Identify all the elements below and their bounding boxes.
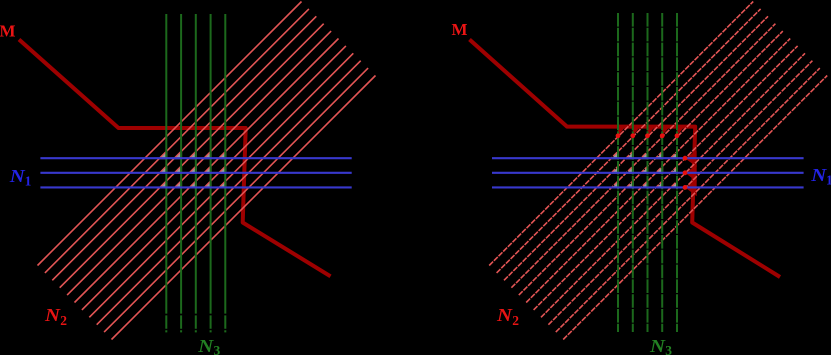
lamination N2 left line 5 xyxy=(67,31,331,295)
gray triangle left g3 b2 xyxy=(189,166,197,174)
lamination N3 right line 2 xyxy=(632,13,634,332)
finger spike right 2 xyxy=(633,125,642,136)
lamination N2 left line 1 xyxy=(38,2,302,266)
lamination N3 left line 3 xyxy=(195,14,197,314)
svg-text:N: N xyxy=(197,336,214,355)
lamination N1 right line 2 xyxy=(492,172,804,174)
intersection dot right 8 xyxy=(683,185,688,190)
lamination N3 left line 1 xyxy=(165,14,167,314)
gray triangle left g2 b1 xyxy=(174,151,182,159)
svg-text:3: 3 xyxy=(214,343,221,355)
lamination N2 right line 11 xyxy=(563,76,827,340)
lamination N2 right line 7 xyxy=(534,46,798,310)
curve M (right) xyxy=(470,40,781,278)
lamination N2 left line 10 xyxy=(104,68,368,332)
gray triangle left g1 b2 xyxy=(160,166,168,174)
gray triangle right g2 b3 xyxy=(626,181,634,188)
gray triangle left g4 b2 xyxy=(204,166,212,174)
lamination N2 left line 7 xyxy=(82,46,346,310)
gray triangle left g4 b3 xyxy=(204,181,211,188)
lamination N2 left line 8 xyxy=(89,53,353,317)
lamination N1 right line 1 xyxy=(492,157,804,159)
svg-text:1: 1 xyxy=(826,173,831,188)
gray triangle right g1 b2 xyxy=(611,166,619,174)
intersection dot right 5 xyxy=(675,133,680,138)
finger spike right 1 xyxy=(618,125,627,136)
lamination N1 left line 2 xyxy=(40,172,351,174)
gray triangle right g2 b2 xyxy=(626,166,634,174)
lamination N3 left line 2 xyxy=(180,14,182,314)
gray triangle left g5 b1 xyxy=(219,152,227,160)
gray triangle left g3 b3 xyxy=(189,181,196,188)
intersection dot right 1 xyxy=(616,133,621,138)
gray triangle left g1 b1 xyxy=(159,151,167,159)
finger spike right 7 xyxy=(685,165,697,181)
intersection dot right 2 xyxy=(630,133,635,138)
lamination N3 left line 5 xyxy=(224,14,226,314)
lamination N2 right line 3 xyxy=(504,16,768,280)
finger spike right 8 xyxy=(685,180,697,196)
svg-text:M: M xyxy=(0,22,16,41)
gray triangle left g2 b3 xyxy=(175,181,183,189)
lamination N1 right line 3 xyxy=(492,186,804,188)
gray triangle right g5 b2 xyxy=(671,166,679,174)
finger spike right 4 xyxy=(662,125,671,136)
gray triangle right g3 b2 xyxy=(641,166,649,174)
svg-text:N: N xyxy=(496,305,513,325)
lamination N2 right line 5 xyxy=(519,31,783,295)
finger spike right 5 xyxy=(677,125,686,136)
gray triangle left g4 b1 xyxy=(204,151,212,159)
lamination N2 left line 2 xyxy=(45,9,309,273)
lamination N3 right line 5 xyxy=(676,13,678,332)
finger spike right 6 xyxy=(685,151,697,167)
svg-text:2: 2 xyxy=(512,313,519,328)
gray triangle left g2 b2 xyxy=(174,166,182,174)
lamination N2 left line 4 xyxy=(60,24,324,288)
gray triangle left g5 b2 xyxy=(219,166,227,174)
lamination N1 left line 3 xyxy=(40,186,351,188)
lamination N2 right line 6 xyxy=(526,39,790,303)
gray triangle right g3 b1 xyxy=(641,151,649,159)
lamination N2 right line 9 xyxy=(548,61,812,325)
gray triangle right g4 b2 xyxy=(656,166,664,174)
gray triangle left g1 b3 xyxy=(160,181,168,189)
finger spike right 3 xyxy=(648,125,657,136)
curve M (left) xyxy=(19,40,331,277)
intersection dot right 4 xyxy=(660,133,665,138)
lamination N2 right line 4 xyxy=(511,24,775,288)
intersection dot right 7 xyxy=(683,170,688,175)
svg-text:M: M xyxy=(452,20,468,39)
svg-text:N: N xyxy=(649,336,666,355)
lamination N2 right line 10 xyxy=(556,68,820,332)
lamination N3 right line 4 xyxy=(661,13,663,332)
gray triangle right g5 b1 xyxy=(670,152,678,160)
gray triangle right g1 b1 xyxy=(611,151,619,159)
lamination N2 left line 11 xyxy=(112,76,376,340)
intersection dot right 6 xyxy=(683,156,688,161)
svg-text:3: 3 xyxy=(665,343,672,355)
gray triangle right g1 b3 xyxy=(612,181,620,189)
lamination N3 right line 3 xyxy=(647,13,649,332)
gray triangle right g3 b3 xyxy=(641,181,648,188)
lamination N3 right line 1 xyxy=(617,13,619,332)
svg-text:N: N xyxy=(44,305,61,325)
gray triangle right g2 b1 xyxy=(626,151,634,159)
lamination N3 left line 4 xyxy=(210,14,212,314)
gray triangle right g5 b3 xyxy=(671,181,678,188)
gray triangle left g5 b3 xyxy=(219,181,226,188)
svg-text:1: 1 xyxy=(25,173,32,188)
lamination N2 left line 6 xyxy=(75,39,339,303)
svg-text:N: N xyxy=(9,166,26,186)
lamination N1 left line 1 xyxy=(40,157,351,159)
lamination N2 left line 9 xyxy=(97,61,361,325)
lamination N2 right line 8 xyxy=(541,53,805,317)
gray triangle right g4 b3 xyxy=(656,181,663,188)
gray triangle right g4 b1 xyxy=(656,152,664,160)
gray triangle left g3 b1 xyxy=(189,151,197,159)
svg-text:2: 2 xyxy=(60,313,67,328)
lamination N2 right line 2 xyxy=(497,9,761,273)
lamination N2 left line 3 xyxy=(52,16,316,280)
intersection dot right 3 xyxy=(645,133,650,138)
svg-text:N: N xyxy=(810,165,827,185)
lamination N2 right line 1 xyxy=(489,2,753,266)
